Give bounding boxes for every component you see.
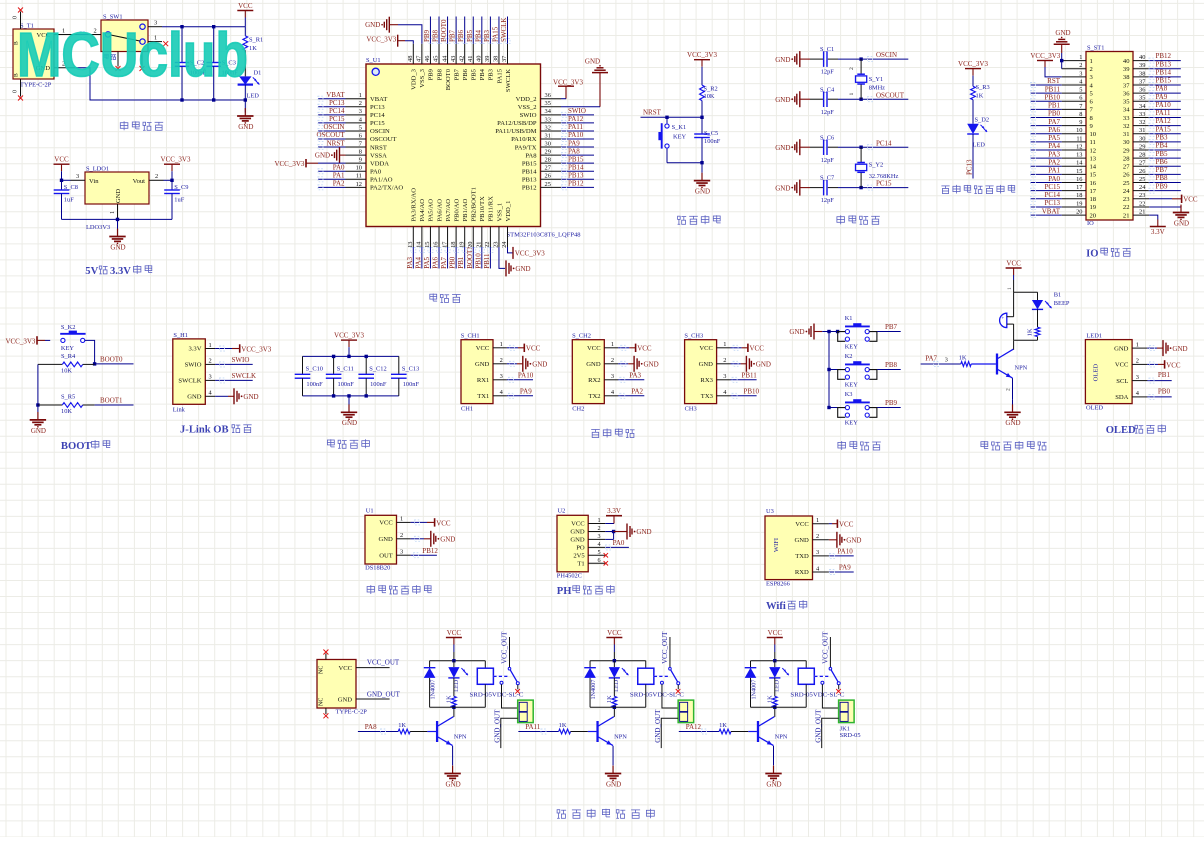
svg-text:LDO3V3: LDO3V3	[86, 224, 110, 231]
svg-text:PA12: PA12	[568, 115, 584, 123]
svg-text:PA6: PA6	[1048, 126, 1060, 134]
svg-text:VCC_3V3: VCC_3V3	[687, 51, 717, 59]
net label OSCOUT + wire	[861, 91, 908, 101]
relay contact (PA8)	[493, 631, 519, 685]
designator JK1 SRD-05	[840, 725, 861, 739]
pin S_U1.40 PB4	[476, 44, 487, 81]
svg-text:VCC: VCC	[1183, 196, 1198, 204]
svg-text:2V5: 2V5	[573, 553, 585, 560]
svg-text:PA6/AO: PA6/AO	[436, 199, 443, 222]
resistor S_R3 1K	[971, 84, 990, 124]
svg-text:PB10: PB10	[1044, 93, 1060, 101]
capacitor S_C7 12pF	[800, 175, 861, 205]
diode 1N4007 (PA12)	[745, 661, 758, 708]
svg-text:15: 15	[1090, 172, 1097, 179]
svg-text:PA2: PA2	[631, 388, 643, 396]
svg-text:PB10: PB10	[474, 253, 482, 269]
pin U3.3 TXD	[795, 549, 829, 560]
pin S_U1.39 PB3	[484, 44, 495, 81]
net label PA8 (io right)	[1149, 85, 1181, 96]
net label PC14 (io left)	[1031, 191, 1062, 201]
resistor 1K (base PA11)	[559, 722, 571, 734]
svg-text:PA8: PA8	[525, 152, 537, 159]
pin S_ST1.12	[1062, 143, 1096, 154]
ground GND (S_CH3)	[731, 356, 771, 372]
svg-text:VCC_3V3: VCC_3V3	[161, 156, 191, 164]
svg-text:PA8: PA8	[568, 147, 580, 155]
pin LED1.3 SCL	[1116, 374, 1147, 385]
junction boot0	[93, 362, 96, 365]
svg-text:VCC_OUT: VCC_OUT	[661, 631, 669, 664]
junction at C2 top	[180, 25, 183, 28]
svg-text:S_C8: S_C8	[64, 184, 78, 191]
LED D1	[238, 69, 262, 99]
svg-text:23: 23	[1123, 196, 1130, 203]
net label PB7 (chip top)	[449, 17, 459, 44]
svg-text:PA9/TX: PA9/TX	[515, 144, 537, 151]
svg-text:0: 0	[13, 16, 19, 19]
relay contact (PA12)	[814, 631, 840, 685]
pin LED1.1 GND	[1114, 341, 1147, 352]
svg-text:3: 3	[598, 533, 601, 540]
svg-text:30: 30	[1123, 139, 1130, 146]
svg-text:PA3: PA3	[406, 256, 414, 268]
svg-text:32: 32	[1123, 123, 1130, 130]
svg-text:47: 47	[416, 55, 423, 62]
pin S_ST1.10	[1062, 127, 1097, 138]
wire relay bottom rail PA11	[590, 684, 646, 707]
svg-text:S_ST1: S_ST1	[1087, 44, 1104, 51]
pin S_ST1.27	[1123, 160, 1149, 171]
svg-text:PB8: PB8	[1156, 174, 1169, 182]
svg-text:GND: GND	[699, 361, 714, 368]
svg-text:VCC: VCC	[839, 521, 854, 529]
svg-text:VCC_3V3: VCC_3V3	[241, 345, 271, 353]
svg-text:5: 5	[359, 124, 362, 131]
pin S_ST1.20	[1062, 208, 1097, 219]
net label PA7 (chip bottom)	[440, 247, 450, 269]
svg-text:NPN: NPN	[775, 734, 788, 741]
svg-text:20: 20	[1090, 212, 1097, 219]
svg-text:GND: GND	[1174, 219, 1189, 227]
net label PB9 (chip top)	[423, 17, 433, 44]
net label PB11 (S_CH3)	[731, 372, 758, 383]
svg-text:40: 40	[1139, 54, 1145, 61]
svg-text:VBAT: VBAT	[1042, 207, 1061, 215]
svg-text:29: 29	[545, 149, 551, 156]
svg-text:PA12/USB/DP: PA12/USB/DP	[497, 120, 537, 127]
svg-text:VSS_3: VSS_3	[419, 68, 426, 87]
svg-text:1K: 1K	[1027, 328, 1034, 336]
svg-text:VCC: VCC	[338, 665, 352, 672]
pin U2.6 T1	[577, 557, 605, 568]
svg-text:Wifi: Wifi	[766, 601, 786, 612]
svg-text:OSCOUT: OSCOUT	[316, 131, 345, 139]
pin S_ST1.9	[1062, 119, 1094, 130]
svg-text:PA11: PA11	[568, 123, 584, 131]
svg-text:GND: GND	[570, 537, 585, 544]
pin S_U1.19 PB1/AO	[458, 199, 469, 248]
net label PA1 (chip left)	[318, 172, 346, 182]
svg-text:PA7: PA7	[925, 355, 937, 363]
ground GND at S_U1.47 VSS_3	[365, 17, 422, 44]
sensor U2 PH4502C body	[557, 508, 588, 580]
pin U3.2 GND	[795, 533, 829, 544]
svg-text:1K: 1K	[767, 695, 774, 703]
wire alarm bottom rail	[1014, 339, 1037, 341]
svg-text:16: 16	[1090, 180, 1097, 187]
svg-text:GND: GND	[1114, 345, 1129, 352]
no-connect X on S_T1 top pin	[18, 8, 23, 13]
pin S_U1.22 PB11/RX	[484, 196, 495, 248]
wire VCC to LDO Vin	[62, 179, 71, 181]
svg-text:PB11: PB11	[742, 372, 758, 380]
junction at C8 top	[60, 179, 63, 182]
svg-text:10: 10	[1076, 127, 1082, 134]
net label BOOT0 (chip top)	[440, 17, 450, 44]
diode 1N4007 (PA8)	[424, 661, 437, 708]
svg-text:39: 39	[484, 56, 491, 62]
svg-text:GND: GND	[606, 780, 621, 788]
svg-text:23: 23	[1139, 192, 1145, 199]
svg-text:33: 33	[545, 116, 551, 123]
svg-text:PC14: PC14	[1044, 191, 1060, 199]
svg-text:2: 2	[209, 358, 212, 365]
svg-text:S_K2: S_K2	[61, 324, 76, 331]
net label PB1 (chip bottom)	[457, 247, 467, 269]
svg-text:PB1: PB1	[1048, 102, 1061, 110]
pin S_ST1.33	[1123, 111, 1149, 122]
svg-text:PC15: PC15	[329, 115, 345, 123]
pin S_U1.13 PA3/RX/AO	[407, 188, 418, 248]
caption crystal circuit	[837, 215, 880, 224]
svg-text:3: 3	[816, 549, 819, 556]
net label PB12 (temp)	[411, 547, 439, 558]
net label PC15 (io left)	[1031, 183, 1062, 193]
wire GND_OUT (PA8)	[494, 709, 518, 748]
relay contact (PA11)	[654, 631, 680, 685]
svg-text:8MHz: 8MHz	[869, 84, 885, 91]
svg-text:GND: GND	[379, 536, 394, 543]
svg-text:S_C4: S_C4	[820, 86, 835, 93]
net label BOOT1 + wire	[95, 397, 134, 406]
wire gnd to key bus	[822, 331, 837, 333]
junction at crystal (PC14)	[859, 146, 862, 149]
svg-text:GND: GND	[440, 536, 455, 544]
svg-text:15: 15	[1076, 168, 1082, 175]
sensor U1 DS18B20 body	[365, 508, 397, 572]
module U3 ESP8266 body	[765, 508, 813, 588]
net label PA11 (io right)	[1149, 109, 1181, 120]
svg-text:VCC: VCC	[768, 629, 783, 637]
pin S_U1.1 VBAT	[346, 92, 388, 103]
wire bus to K3	[829, 407, 838, 409]
capacitor S_C3 100nF	[207, 27, 239, 100]
svg-text:2: 2	[359, 100, 362, 107]
svg-text:S_CH2: S_CH2	[572, 333, 591, 340]
svg-text:GND: GND	[789, 328, 804, 336]
net label PA4 (io left)	[1031, 142, 1062, 152]
net label PA12 + wire	[679, 723, 719, 734]
svg-text:1N4007: 1N4007	[590, 680, 597, 700]
capacitor S_C12 100nF	[358, 356, 386, 396]
net label PB7 (io right)	[1149, 166, 1181, 177]
resistor S_R5 10K	[38, 394, 95, 416]
no-connect X U2.6	[604, 561, 608, 565]
svg-text:VCC: VCC	[476, 345, 490, 352]
svg-text:D1: D1	[254, 69, 262, 76]
pin S_H1.2 SWIO	[185, 358, 215, 369]
net label PB12 (io right)	[1149, 52, 1181, 63]
pin S_ST1.13	[1062, 152, 1097, 163]
pin TYPE-C top stub	[325, 654, 327, 660]
net label PB10 (chip bottom)	[474, 247, 484, 269]
svg-text:30: 30	[545, 140, 551, 147]
svg-text:GND: GND	[585, 58, 600, 66]
svg-text:CH2: CH2	[572, 406, 584, 413]
pin S_U1.37 SWCLK	[501, 44, 512, 92]
junction C2 bottom	[180, 98, 183, 101]
svg-text:GND_OUT: GND_OUT	[494, 709, 502, 743]
net label PB0 (oled)	[1147, 387, 1171, 399]
svg-text:34: 34	[545, 108, 552, 115]
pin S_U1.3 PC14	[346, 108, 386, 119]
svg-text:IO: IO	[1086, 248, 1098, 259]
svg-text:PA4/AO: PA4/AO	[419, 199, 426, 222]
svg-text:1: 1	[359, 92, 362, 99]
label kaiguan under switch	[104, 54, 116, 60]
net label PA7 (io left)	[1031, 118, 1062, 128]
resistor S_R2 10K	[700, 85, 718, 117]
net label PC13 (indicator) + wire	[965, 134, 973, 179]
pin S_H1.4 GND	[187, 390, 215, 401]
svg-text:35: 35	[545, 100, 551, 107]
pin S_U1.29 PA8	[525, 149, 561, 160]
svg-text:PA1/AO: PA1/AO	[370, 177, 393, 184]
svg-text:36: 36	[545, 92, 551, 99]
junction relay bottom PA12	[773, 706, 776, 709]
pin S_U1.41 PB5	[467, 44, 478, 81]
svg-text:S_LDO1: S_LDO1	[86, 166, 109, 173]
svg-text:S_Y2: S_Y2	[869, 161, 884, 168]
svg-text:PA12: PA12	[1156, 117, 1172, 125]
svg-text:1: 1	[500, 341, 503, 348]
capacitor S_C4 12pF	[800, 86, 861, 116]
pin S_T1.2 GND	[54, 67, 77, 69]
pin S_CH2.1 VCC	[587, 341, 618, 352]
net label PA3 (chip bottom)	[406, 247, 416, 269]
pin S_CH3.3 RX3	[700, 373, 730, 384]
svg-text:31: 31	[1123, 131, 1130, 138]
net label PB10 (S_CH3)	[731, 388, 760, 399]
ground GND (relay PA8)	[444, 766, 460, 789]
svg-text:VCC_3V3: VCC_3V3	[515, 249, 545, 257]
svg-text:PB8: PB8	[436, 68, 443, 80]
svg-text:B1: B1	[1054, 292, 1061, 299]
svg-text:S_R5: S_R5	[61, 394, 75, 401]
wire base (PA8)	[410, 731, 436, 733]
svg-text:3: 3	[723, 373, 726, 380]
svg-text:28: 28	[545, 157, 551, 164]
svg-text:PB5: PB5	[466, 29, 474, 42]
svg-text:PA10: PA10	[1156, 101, 1172, 109]
svg-text:PA2/TX/AO: PA2/TX/AO	[370, 185, 403, 192]
pin S_CH1.3 RX1	[477, 373, 507, 384]
svg-text:LED: LED	[973, 142, 986, 149]
svg-text:PB15: PB15	[1156, 77, 1172, 85]
svg-text:19: 19	[1076, 200, 1082, 207]
pin S_ST1.5	[1062, 87, 1094, 98]
no-connect X on S_SW1.5	[140, 66, 145, 71]
svg-text:PA4: PA4	[1048, 142, 1060, 150]
svg-text:SWCLK: SWCLK	[178, 378, 201, 385]
svg-text:PB10/TX: PB10/TX	[479, 196, 486, 222]
svg-text:100nF: 100nF	[403, 381, 420, 388]
svg-text:1: 1	[611, 341, 614, 348]
svg-text:OLED: OLED	[1106, 425, 1136, 436]
svg-text:GND: GND	[238, 123, 253, 131]
svg-text:PB3: PB3	[488, 68, 495, 80]
svg-text:PA11: PA11	[1156, 109, 1172, 117]
svg-text:IO: IO	[1087, 220, 1094, 227]
svg-text:GND: GND	[110, 243, 125, 251]
svg-text:PA2: PA2	[333, 180, 345, 188]
pin S_ST1.11	[1062, 135, 1096, 146]
wire relay NO to connector (PA8)	[502, 684, 518, 708]
junction at crystal (OSCIN)	[859, 57, 862, 60]
pin S_CH3.2 GND	[699, 357, 731, 368]
svg-text:VBAT: VBAT	[370, 96, 387, 103]
svg-text:PB6: PB6	[462, 68, 469, 80]
svg-text:PA3: PA3	[1048, 150, 1060, 158]
pin S_U1.2 PC13	[346, 100, 386, 111]
svg-text:PO: PO	[576, 545, 585, 552]
svg-text:PB7: PB7	[1156, 166, 1169, 174]
junction C5 bottom	[700, 161, 703, 164]
svg-text:1K: 1K	[249, 45, 257, 52]
svg-text:VCC: VCC	[447, 629, 462, 637]
key S_K2	[60, 324, 85, 352]
junction filter bottom C11	[332, 394, 335, 397]
svg-text:PA1: PA1	[333, 172, 345, 180]
pin S_CH2.3 RX2	[588, 373, 618, 384]
svg-text:17: 17	[1090, 188, 1097, 195]
pin S_ST1.2	[1062, 62, 1093, 73]
net label PA2 (io left)	[1031, 158, 1062, 168]
svg-text:25: 25	[1123, 180, 1130, 187]
pin S_U1.23 VSS_1	[493, 203, 504, 248]
svg-text:PA9: PA9	[1156, 93, 1168, 101]
svg-text:PA15: PA15	[1156, 125, 1172, 133]
svg-text:PC14: PC14	[329, 107, 345, 115]
pin S_U1.16 PA6/AO	[433, 199, 444, 248]
svg-text:GND_OUT: GND_OUT	[367, 690, 401, 698]
net label PA3 (io left)	[1031, 150, 1062, 160]
svg-text:S_C10: S_C10	[306, 365, 323, 372]
svg-text:3: 3	[359, 108, 362, 115]
net label SWIO (jlink)	[215, 356, 253, 367]
ground GND (power circuit)	[237, 108, 253, 131]
svg-text:VCC_OUT: VCC_OUT	[822, 631, 830, 664]
svg-text:26: 26	[1123, 172, 1130, 179]
wire key to boot0 node	[85, 340, 95, 364]
svg-text:VCC_3V3: VCC_3V3	[553, 78, 583, 86]
svg-text:KEY: KEY	[845, 344, 859, 351]
net label PA6 (io left)	[1031, 126, 1062, 136]
net label PA2 (chip left)	[318, 180, 346, 190]
pin S_ST1.29	[1123, 143, 1149, 154]
svg-text:VCC_OUT: VCC_OUT	[501, 631, 509, 664]
net label NRST (chip left)	[318, 139, 346, 149]
pin S_U1.12 PA2/TX/AO	[346, 181, 404, 192]
net label PC14 + wire	[861, 139, 908, 149]
pin S_U1.25 PB12	[522, 181, 561, 192]
caption serial circuit	[591, 429, 634, 438]
svg-text:PB5: PB5	[471, 68, 478, 80]
svg-text:S_R4: S_R4	[61, 353, 76, 360]
svg-text:VDDA: VDDA	[370, 160, 389, 167]
net label NRST + wire	[641, 109, 703, 118]
svg-text:22: 22	[484, 242, 491, 248]
pin S_ST1.34	[1123, 103, 1149, 114]
svg-text:37: 37	[501, 55, 508, 62]
svg-text:2: 2	[611, 357, 614, 364]
svg-text:+: +	[1001, 316, 1004, 322]
net label OSCOUT (chip left)	[316, 131, 345, 141]
svg-text:BEEP: BEEP	[1054, 300, 1070, 307]
net label PC15 (chip left)	[318, 115, 346, 125]
capacitor S_C8 1uF	[54, 180, 78, 219]
net label PA11 (chip right)	[561, 123, 594, 133]
pin S_ST1.6	[1062, 95, 1094, 106]
svg-text:TYPE-C-2P: TYPE-C-2P	[336, 708, 368, 715]
power port VCC_3V3 at S_U1.48 VDD_3	[366, 35, 413, 47]
net label PC15 + wire	[861, 180, 908, 190]
ground GND (S_C6)	[775, 139, 800, 155]
svg-text:VCC_3V3: VCC_3V3	[958, 60, 988, 68]
connector S_ST1 IO body	[1086, 44, 1133, 227]
net label PB15 (chip right)	[561, 155, 594, 165]
pin S_U1.34 SWIO	[520, 108, 561, 119]
svg-text:GND: GND	[315, 152, 330, 160]
net label PB0 (io left)	[1031, 110, 1062, 120]
connector S_CH3 body	[684, 333, 716, 413]
net label PA11 + wire	[518, 723, 558, 734]
caption dianyuan dianlu	[120, 121, 163, 130]
svg-text:5: 5	[1079, 87, 1082, 94]
svg-text:39: 39	[1139, 62, 1145, 69]
svg-text:PC15: PC15	[1044, 183, 1060, 191]
pin S_SW1.2	[90, 34, 101, 36]
pin S_ST1.15	[1062, 168, 1097, 179]
pin S_ST1.24	[1123, 184, 1149, 195]
key K3	[838, 391, 877, 427]
wire key to gnd rail	[667, 162, 702, 164]
svg-text:31: 31	[1139, 127, 1145, 134]
pin S_ST1.16	[1062, 176, 1097, 187]
svg-text:6: 6	[1079, 95, 1082, 102]
svg-text:PB5: PB5	[1156, 150, 1169, 158]
pin S_CH3.1 VCC	[699, 341, 730, 352]
svg-text:6: 6	[359, 132, 362, 139]
caption 5V to 3.3V circuit	[85, 265, 152, 277]
pin U1.1 VCC	[379, 516, 410, 527]
svg-text:S_C13: S_C13	[402, 365, 419, 372]
svg-text:PA9: PA9	[839, 564, 851, 572]
net label PA10 (io right)	[1149, 101, 1181, 112]
svg-text:WIFI: WIFI	[773, 538, 780, 552]
pin S_U1.20 PB2/BOOT1	[467, 187, 478, 248]
